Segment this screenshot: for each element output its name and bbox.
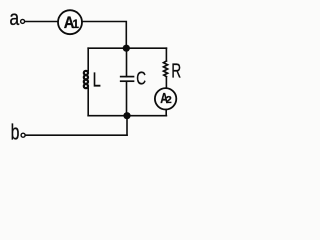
- svg-text:R: R: [171, 60, 181, 82]
- svg-text:a: a: [9, 7, 19, 30]
- svg-text:2: 2: [166, 94, 172, 106]
- svg-text:1: 1: [73, 19, 80, 31]
- svg-text:L: L: [93, 69, 101, 92]
- svg-text:C: C: [136, 69, 146, 89]
- svg-text:b: b: [11, 119, 20, 144]
